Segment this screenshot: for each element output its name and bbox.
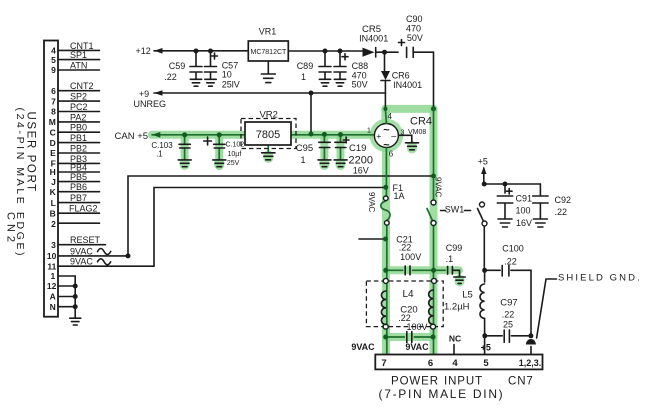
svg-text:.22: .22 bbox=[164, 72, 177, 82]
svg-text:K: K bbox=[50, 187, 57, 197]
svg-text:9: 9 bbox=[51, 65, 56, 75]
svg-text:3: 3 bbox=[51, 240, 56, 250]
svg-text:12: 12 bbox=[47, 281, 57, 291]
svg-text:~: ~ bbox=[383, 125, 390, 137]
svg-text:100: 100 bbox=[516, 206, 531, 216]
svg-text:A: A bbox=[50, 292, 56, 302]
svg-text:+: + bbox=[376, 131, 381, 141]
svg-text:.22: .22 bbox=[502, 310, 515, 320]
svg-text:1: 1 bbox=[300, 155, 305, 165]
svg-text:9VAC: 9VAC bbox=[405, 342, 429, 352]
svg-text:INPUT: INPUT bbox=[444, 376, 483, 388]
svg-text:3: 3 bbox=[401, 130, 405, 137]
svg-text:J: J bbox=[51, 177, 56, 187]
svg-text:PA2: PA2 bbox=[70, 112, 86, 122]
svg-text:PB7: PB7 bbox=[70, 193, 87, 203]
svg-text:100V: 100V bbox=[406, 322, 427, 332]
svg-text:10µf: 10µf bbox=[228, 151, 242, 158]
svg-text:E: E bbox=[50, 148, 56, 158]
svg-text:NC: NC bbox=[449, 334, 461, 344]
svg-text:C92: C92 bbox=[555, 195, 572, 205]
svg-text:RESET: RESET bbox=[70, 235, 101, 245]
svg-text:C95: C95 bbox=[296, 143, 313, 154]
svg-text:SW1: SW1 bbox=[445, 205, 465, 215]
svg-text:.22: .22 bbox=[504, 257, 517, 267]
svg-text:PB5: PB5 bbox=[70, 172, 87, 182]
svg-text:1: 1 bbox=[367, 128, 371, 135]
svg-text:50V: 50V bbox=[352, 80, 368, 90]
svg-text:4: 4 bbox=[51, 46, 56, 56]
svg-text:PB6: PB6 bbox=[70, 182, 87, 192]
svg-text:7805: 7805 bbox=[256, 129, 280, 141]
svg-text:L: L bbox=[51, 198, 56, 208]
svg-text:PC2: PC2 bbox=[70, 102, 88, 112]
svg-text:CR4: CR4 bbox=[410, 116, 432, 128]
svg-text:CN7: CN7 bbox=[508, 376, 534, 388]
svg-text:C88: C88 bbox=[352, 61, 369, 71]
svg-text:N: N bbox=[50, 302, 56, 312]
svg-text:2: 2 bbox=[51, 219, 56, 229]
svg-text:C: C bbox=[50, 127, 56, 137]
svg-text:C89: C89 bbox=[297, 61, 314, 71]
svg-text:IN4001: IN4001 bbox=[359, 34, 388, 44]
svg-text:7: 7 bbox=[381, 358, 386, 369]
svg-text:C100: C100 bbox=[502, 244, 524, 254]
svg-text:C97: C97 bbox=[500, 298, 517, 309]
svg-text:C90: C90 bbox=[406, 14, 423, 24]
svg-text:UNREG: UNREG bbox=[134, 99, 167, 109]
svg-text:C.102: C.102 bbox=[226, 142, 245, 149]
svg-text:6: 6 bbox=[428, 358, 433, 369]
svg-text:1,2,3.: 1,2,3. bbox=[519, 358, 542, 368]
svg-text:8: 8 bbox=[51, 107, 56, 117]
svg-text:B: B bbox=[50, 208, 56, 218]
svg-text:.1: .1 bbox=[156, 149, 163, 158]
svg-text:9VAC: 9VAC bbox=[351, 342, 375, 352]
svg-text:FLAG2: FLAG2 bbox=[69, 204, 98, 214]
svg-text:.22: .22 bbox=[399, 242, 412, 252]
svg-text:4: 4 bbox=[452, 358, 458, 369]
svg-text:–: – bbox=[391, 131, 396, 141]
svg-text:PB0: PB0 bbox=[70, 123, 87, 133]
svg-text:SP1: SP1 bbox=[70, 50, 87, 60]
svg-text:C99: C99 bbox=[446, 243, 463, 253]
svg-text:9VAC: 9VAC bbox=[434, 177, 443, 198]
svg-text:7: 7 bbox=[51, 96, 56, 106]
svg-text:CNT2: CNT2 bbox=[70, 81, 94, 91]
svg-text:VM08: VM08 bbox=[408, 129, 426, 136]
svg-text:16V: 16V bbox=[516, 218, 532, 228]
svg-text:PB1: PB1 bbox=[70, 133, 87, 143]
svg-text:D: D bbox=[50, 138, 56, 148]
svg-text:4: 4 bbox=[388, 112, 393, 121]
svg-text:100V: 100V bbox=[400, 252, 421, 262]
svg-text:VR1: VR1 bbox=[259, 27, 277, 37]
svg-text:PB2: PB2 bbox=[70, 144, 87, 154]
svg-text:L5: L5 bbox=[462, 290, 473, 301]
svg-text:25lV: 25lV bbox=[222, 80, 240, 90]
svg-text:1.2µH: 1.2µH bbox=[444, 302, 470, 313]
svg-text:(7-PIN MALE DIN): (7-PIN MALE DIN) bbox=[379, 387, 505, 401]
svg-text:6: 6 bbox=[51, 86, 56, 96]
svg-text:.1: .1 bbox=[446, 254, 454, 264]
svg-text:50V: 50V bbox=[407, 33, 423, 43]
svg-text:9VAC: 9VAC bbox=[70, 246, 93, 256]
svg-text:C59: C59 bbox=[169, 61, 186, 71]
svg-text:VR2: VR2 bbox=[259, 110, 277, 121]
svg-text:5: 5 bbox=[51, 55, 56, 65]
svg-text:1: 1 bbox=[301, 72, 306, 82]
svg-text:+5: +5 bbox=[478, 157, 488, 167]
svg-text:5: 5 bbox=[483, 358, 489, 369]
svg-text:PB4: PB4 bbox=[70, 163, 87, 173]
svg-text:.22: .22 bbox=[555, 207, 568, 217]
svg-text:11: 11 bbox=[47, 261, 56, 271]
svg-text:L4: L4 bbox=[402, 289, 414, 300]
svg-text:C19: C19 bbox=[349, 143, 366, 154]
svg-text:ATN: ATN bbox=[70, 61, 87, 71]
svg-text:H: H bbox=[50, 167, 56, 177]
svg-text:+12: +12 bbox=[136, 46, 151, 56]
svg-text:MC7812CT: MC7812CT bbox=[251, 49, 288, 56]
svg-text:C91: C91 bbox=[516, 194, 533, 204]
svg-text:+9: +9 bbox=[139, 89, 149, 99]
svg-text:SHIELD GND.: SHIELD GND. bbox=[558, 273, 642, 284]
svg-text:16V: 16V bbox=[353, 165, 369, 175]
svg-text:25V: 25V bbox=[227, 160, 240, 167]
svg-text:10: 10 bbox=[222, 70, 232, 80]
svg-text:POWER: POWER bbox=[391, 376, 439, 388]
svg-text:6: 6 bbox=[389, 150, 394, 159]
svg-text:+5: +5 bbox=[481, 343, 491, 353]
svg-text:1A: 1A bbox=[394, 191, 405, 201]
svg-text:9VAC: 9VAC bbox=[367, 192, 376, 213]
svg-text:1: 1 bbox=[50, 271, 55, 281]
svg-text:CN2: CN2 bbox=[5, 212, 17, 246]
svg-text:IN4001: IN4001 bbox=[393, 80, 422, 90]
svg-text:10: 10 bbox=[47, 251, 57, 261]
svg-text:9VAC: 9VAC bbox=[70, 257, 93, 267]
svg-text:CAN +5: CAN +5 bbox=[115, 131, 149, 142]
svg-text:SP2: SP2 bbox=[70, 92, 87, 102]
svg-text:M: M bbox=[49, 117, 56, 127]
svg-text:470: 470 bbox=[406, 24, 421, 34]
svg-text:25: 25 bbox=[503, 320, 513, 330]
